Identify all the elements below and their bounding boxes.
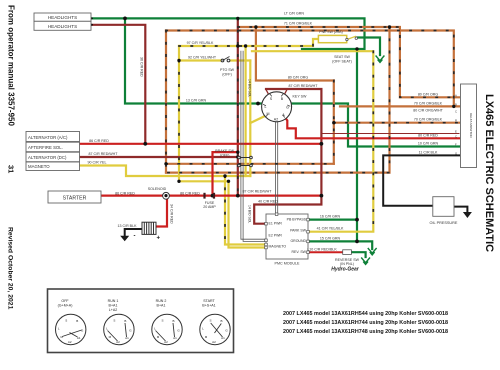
svg-text:C: C <box>455 134 457 138</box>
svg-text:80 C/R ORG: 80 C/R ORG <box>418 92 439 96</box>
svg-text:31: 31 <box>7 165 16 173</box>
svg-text:2007 LX465 model 13AX61RH544 u: 2007 LX465 model 13AX61RH544 using 20hp … <box>283 311 448 317</box>
svg-text:Revised October 20, 2021: Revised October 20, 2021 <box>7 227 14 310</box>
svg-text:AFTERFIRE SOL.: AFTERFIRE SOL. <box>28 145 63 150</box>
svg-text:14 B/O SOL: 14 B/O SOL <box>248 79 252 97</box>
svg-text:DELTA MONITOR: DELTA MONITOR <box>469 113 473 139</box>
svg-text:GROUND: GROUND <box>290 239 306 243</box>
svg-text:START: START <box>203 299 215 303</box>
svg-text:S: S <box>161 319 163 323</box>
svg-text:HEADLIGHTS: HEADLIGHTS <box>48 24 77 29</box>
svg-text:A1: A1 <box>173 336 177 340</box>
svg-text:OFF: OFF <box>61 299 69 303</box>
svg-text:87 C/R RED/WHT: 87 C/R RED/WHT <box>243 190 273 194</box>
svg-text:S: S <box>65 319 67 323</box>
svg-text:F: F <box>455 143 457 147</box>
svg-text:87 C/R RED/WHT: 87 C/R RED/WHT <box>289 84 319 88</box>
svg-text:MAGNETO: MAGNETO <box>269 245 287 249</box>
svg-text:MAGNETO: MAGNETO <box>28 164 50 169</box>
svg-text:(OFF SEAT): (OFF SEAT) <box>332 59 352 63</box>
svg-text:A2: A2 <box>212 340 216 344</box>
svg-text:80 C/R RED: 80 C/R RED <box>418 133 438 137</box>
svg-text:REV. SW: REV. SW <box>292 250 307 254</box>
svg-text:E2 PWR: E2 PWR <box>269 234 283 238</box>
svg-text:E: E <box>455 130 457 134</box>
svg-text:C: C <box>455 110 457 114</box>
svg-text:15 C/R GRN: 15 C/R GRN <box>320 236 341 240</box>
svg-text:87 C/R RED/WHT: 87 C/R RED/WHT <box>89 152 119 156</box>
svg-text:41 C/R YEL/BLK: 41 C/R YEL/BLK <box>317 227 344 231</box>
svg-text:A2: A2 <box>68 340 72 344</box>
svg-text:80 C/R ORG/WHT: 80 C/R ORG/WHT <box>413 109 443 113</box>
svg-text:16 C/R GRN: 16 C/R GRN <box>320 215 341 219</box>
svg-text:R: R <box>455 119 457 123</box>
svg-text:80 C/R ORG: 80 C/R ORG <box>288 76 309 80</box>
svg-text:S: S <box>209 319 211 323</box>
svg-text:SOLENOID: SOLENOID <box>148 187 167 191</box>
svg-text:A: A <box>455 93 457 97</box>
svg-text:36 C/R RED: 36 C/R RED <box>140 57 144 77</box>
svg-text:PB BYPASS: PB BYPASS <box>287 218 307 222</box>
svg-text:B+S+A1: B+S+A1 <box>202 304 215 308</box>
svg-text:Hydro-Gear: Hydro-Gear <box>331 267 360 273</box>
svg-text:(OFF): (OFF) <box>222 73 232 77</box>
svg-text:-: - <box>134 234 136 240</box>
svg-text:86 C/R RED: 86 C/R RED <box>115 192 135 196</box>
svg-text:KEY SW: KEY SW <box>293 95 308 99</box>
svg-text:34 C/R RED: 34 C/R RED <box>170 204 174 224</box>
svg-text:PTO SW: PTO SW <box>220 68 235 72</box>
svg-text:2007 LX465 model 13AX61RH748 u: 2007 LX465 model 13AX61RH748 using 20hp … <box>283 329 448 335</box>
svg-text:B: B <box>124 319 126 323</box>
svg-text:71 C/R ORG/BLK: 71 C/R ORG/BLK <box>284 22 313 26</box>
svg-text:A2: A2 <box>274 118 278 122</box>
svg-text:B+A1: B+A1 <box>109 304 118 308</box>
svg-text:97 C/R YEL/BLK: 97 C/R YEL/BLK <box>187 41 214 45</box>
svg-text:OIL PRESSURE: OIL PRESSURE <box>430 221 458 225</box>
svg-text:PARK SW: PARK SW <box>290 229 307 233</box>
svg-text:B: B <box>220 319 222 323</box>
svg-text:13 C/R GRN: 13 C/R GRN <box>186 99 207 103</box>
svg-text:11 C/R BLK: 11 C/R BLK <box>419 150 438 154</box>
svg-text:20 AMP: 20 AMP <box>203 205 216 209</box>
svg-text:B: B <box>455 102 457 106</box>
svg-text:A1: A1 <box>125 336 129 340</box>
svg-text:STARTER: STARTER <box>63 196 87 202</box>
svg-text:L+A2: L+A2 <box>109 308 118 312</box>
svg-text:10 C/R GRN: 10 C/R GRN <box>418 142 439 146</box>
svg-text:14 B/O SOL: 14 B/O SOL <box>248 205 252 223</box>
svg-text:2007 LX465 model 13AX61RH744 u: 2007 LX465 model 13AX61RH744 using 20hp … <box>283 320 448 326</box>
svg-text:G: G <box>286 106 289 110</box>
svg-text:92 C/R YEL/WHT: 92 C/R YEL/WHT <box>188 56 217 60</box>
svg-text:S: S <box>113 319 115 323</box>
svg-text:(OFF): (OFF) <box>220 154 230 158</box>
svg-text:BRAKE SW: BRAKE SW <box>215 149 235 153</box>
svg-text:40 C/R RED: 40 C/R RED <box>258 200 278 204</box>
svg-text:86 C/R RED: 86 C/R RED <box>89 139 109 143</box>
svg-text:RUN 1: RUN 1 <box>108 299 119 303</box>
svg-text:LT C/R GRN: LT C/R GRN <box>284 12 304 16</box>
svg-text:LX465 ELECTRIC SCHEMATIC: LX465 ELECTRIC SCHEMATIC <box>483 94 495 252</box>
svg-text:B: B <box>172 319 174 323</box>
svg-text:90 C/R YEL: 90 C/R YEL <box>88 161 107 165</box>
svg-text:G: G <box>455 151 457 155</box>
svg-text:86 C/R RED: 86 C/R RED <box>180 192 200 196</box>
svg-text:B: B <box>76 319 78 323</box>
svg-text:ALTERNATOR (DC): ALTERNATOR (DC) <box>28 155 67 160</box>
svg-text:13 C/R BLK: 13 C/R BLK <box>118 224 138 228</box>
svg-text:(G+M+A): (G+M+A) <box>58 304 73 308</box>
svg-text:L10 C/R RED/BLK: L10 C/R RED/BLK <box>307 248 337 252</box>
svg-text:70 C/R ORG/BLK: 70 C/R ORG/BLK <box>414 101 443 105</box>
svg-text:From operator manual 3357-950: From operator manual 3357-950 <box>7 5 16 126</box>
svg-text:70 C/R ORG/BLK: 70 C/R ORG/BLK <box>414 118 443 122</box>
svg-text:E1 PWR: E1 PWR <box>269 222 283 226</box>
svg-text:RUN 2: RUN 2 <box>156 299 167 303</box>
svg-text:ALTERNATOR (A/C): ALTERNATOR (A/C) <box>28 135 68 140</box>
svg-text:+: + <box>157 236 161 242</box>
svg-text:B+A1: B+A1 <box>157 304 166 308</box>
svg-text:PNL SW (20A): PNL SW (20A) <box>319 30 342 34</box>
svg-text:(IN PNL): (IN PNL) <box>340 262 354 266</box>
svg-text:HEADLIGHTS: HEADLIGHTS <box>48 15 77 20</box>
svg-text:PMC MODULE: PMC MODULE <box>275 262 301 266</box>
